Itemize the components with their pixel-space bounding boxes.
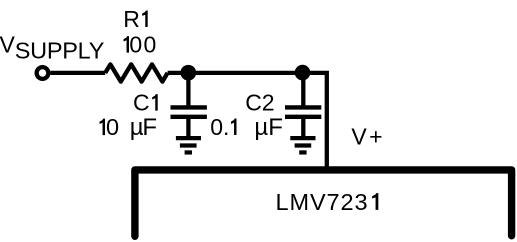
capacitor C1 plate bottom [171,115,207,119]
svg-text:SUPPLY: SUPPLY [15,38,105,64]
svg-text:C2: C2 [245,90,274,116]
junction node dot at C1 [180,65,196,81]
ground symbol below C1 [176,138,201,152]
svg-text:LMV723: LMV723 [276,189,369,215]
ground symbol below C2 [290,138,315,152]
value 10 uF [100,114,158,141]
wire: terminal to R1 [50,71,105,75]
svg-text:V: V [0,31,16,57]
capacitor C2 plate top [285,105,321,109]
capacitor C2 plate bottom [285,115,321,119]
wire: dot1 down to C1 [186,73,190,108]
terminal (VSUPPLY input connector) [37,67,49,79]
wire: R1 to V+ corner [168,73,327,170]
wire: C1 to ground [186,117,190,138]
svg-text:µF: µF [254,114,283,141]
svg-text:C: C [133,90,150,116]
svg-text:0.: 0. [210,114,229,140]
label LMV7231 [276,189,379,215]
wire: dot2 down to C2 [301,73,305,108]
resistor R1 [105,64,167,81]
svg-text:0: 0 [106,114,119,140]
label C1 [133,90,158,116]
value 0.1 uF [210,114,283,141]
value 100 [124,32,158,58]
svg-text:00: 00 [129,32,157,58]
svg-text:R: R [123,6,140,32]
svg-text:F: F [142,114,157,141]
label R1 [123,6,147,32]
capacitor C1 plate top [171,105,207,109]
node VSUPPLY label [0,31,105,63]
wire: C2 to ground [301,117,305,138]
svg-text:V+: V+ [351,124,385,150]
junction node dot at C2 [295,65,311,81]
op-amp U1 LMV7231 outline [135,170,512,236]
